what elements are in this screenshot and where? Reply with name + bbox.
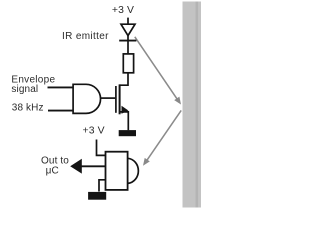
svg-text:signal: signal (11, 84, 38, 95)
svg-text:IR emitter: IR emitter (62, 31, 109, 42)
svg-text:μC: μC (46, 165, 59, 176)
svg-text:38 kHz: 38 kHz (12, 103, 44, 114)
svg-text:+3 V: +3 V (83, 126, 105, 137)
svg-text:+3 V: +3 V (112, 5, 134, 16)
